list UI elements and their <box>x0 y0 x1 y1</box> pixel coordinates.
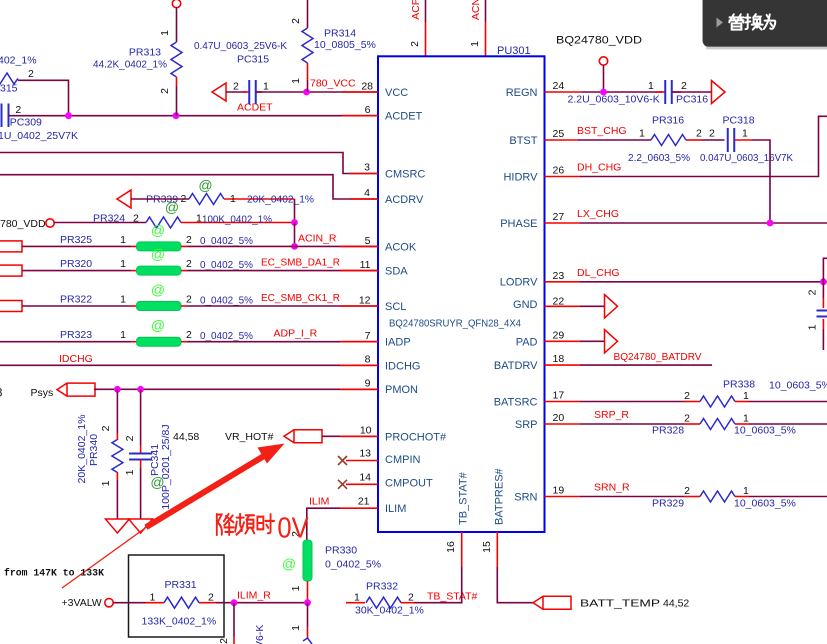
svg-text:PC315: PC315 <box>237 54 269 66</box>
svg-text:2.2_0603_5%: 2.2_0603_5% <box>628 152 690 164</box>
svg-text:44,58: 44,58 <box>173 431 199 443</box>
svg-text:9: 9 <box>365 378 371 390</box>
svg-text:1: 1 <box>159 30 171 36</box>
svg-text:1U_0402_25V7K: 1U_0402_25V7K <box>0 130 78 142</box>
wire IDCHG net <box>0 364 378 366</box>
wire PC318 to LX node <box>735 139 753 141</box>
svg-text:@: @ <box>150 474 164 490</box>
svg-text:21: 21 <box>358 496 370 508</box>
svg-text:PC318: PC318 <box>723 115 755 127</box>
pin 18 stub BATDRV <box>545 364 581 366</box>
svg-text:0_0402_5%: 0_0402_5% <box>200 259 253 271</box>
svg-text:@: @ <box>165 199 179 215</box>
svg-text:11: 11 <box>360 259 371 271</box>
svg-text:2: 2 <box>159 88 171 94</box>
svg-text:PR331: PR331 <box>165 579 197 591</box>
resistor PR329 10_0603_5% <box>580 496 684 498</box>
svg-text:1: 1 <box>807 324 819 330</box>
svg-text:ILIM: ILIM <box>385 503 406 515</box>
svg-text:29: 29 <box>553 329 565 341</box>
svg-text:1: 1 <box>120 258 126 270</box>
pin 22 stub GND with power arrow <box>545 305 581 307</box>
svg-text:30K_0402_1%: 30K_0402_1% <box>355 605 424 617</box>
resistor PR330 0_0402_5% (green jumper) <box>303 540 312 581</box>
resistor PR331 133K_0402_1% <box>113 602 146 604</box>
svg-text:0_0402_5%: 0_0402_5% <box>200 330 253 342</box>
svg-text:20: 20 <box>553 412 565 424</box>
svg-text:PR323: PR323 <box>60 329 92 341</box>
highlight box around PR331 <box>129 555 225 637</box>
svg-text:2: 2 <box>186 294 192 306</box>
wire LX_CHG to right edge <box>580 222 827 224</box>
tooltip popup 替换为 <box>703 0 827 49</box>
svg-text:1: 1 <box>743 390 749 402</box>
junction ACIN_R node <box>291 243 298 250</box>
pin 17 stub <box>545 401 581 403</box>
capacitor PC315 0.47U_0603_25V6-K <box>243 91 250 93</box>
pin 6 stub ACDET <box>342 115 378 117</box>
svg-text:2: 2 <box>186 258 192 270</box>
svg-text:14: 14 <box>359 472 371 484</box>
svg-text:PR325: PR325 <box>60 234 92 246</box>
wire PR322 to IC <box>187 305 378 307</box>
svg-text:4: 4 <box>364 187 370 199</box>
svg-text:1: 1 <box>100 480 112 486</box>
svg-text:BATDRV: BATDRV <box>494 360 538 372</box>
svg-text:23: 23 <box>553 270 565 282</box>
resistor PR314 10_0805_5% <box>307 0 309 28</box>
wire ACDET arrow to PC315 <box>226 91 246 93</box>
svg-text:20K_0402_1%: 20K_0402_1% <box>247 194 314 206</box>
svg-text:PR329: PR329 <box>652 498 684 510</box>
tooltip text 替换为 (drawn glyphs) <box>729 14 775 29</box>
wire PR325 to IC <box>187 245 378 247</box>
svg-text:+3VALW: +3VALW <box>62 597 102 609</box>
svg-text:1: 1 <box>639 128 645 140</box>
svg-text:ACOK: ACOK <box>385 241 417 253</box>
svg-text:13: 13 <box>359 448 371 460</box>
svg-text:2: 2 <box>133 213 139 225</box>
svg-text:10_0603_5%: 10_0603_5% <box>734 425 796 437</box>
svg-text:2: 2 <box>233 81 239 93</box>
svg-text:TB_STAT#: TB_STAT# <box>458 471 470 525</box>
svg-text:SDA: SDA <box>385 266 408 278</box>
wire ILIM from IC down to PR330 <box>340 507 378 509</box>
resistor PR328 10_0603_5% <box>580 423 684 425</box>
junction ILIM_R node <box>231 599 238 606</box>
resistor PR315 (partially cut at left edge) <box>0 73 18 84</box>
svg-text:2: 2 <box>290 18 302 24</box>
op-amp/charger IC PU301 BQ24780SRUYR_QFN28_4X4 body <box>378 56 545 532</box>
svg-text:IDCHG: IDCHG <box>59 353 93 365</box>
pin 27 stub PHASE <box>545 222 581 224</box>
svg-text:2: 2 <box>208 592 214 604</box>
svg-text:1: 1 <box>263 81 269 93</box>
wire PR329 to right edge <box>749 496 827 498</box>
wire BATDRV <box>580 364 712 366</box>
wire BATPRES# pin 15 to BATT_TEMP <box>496 532 498 567</box>
svg-text:ADP_I_R: ADP_I_R <box>274 328 318 340</box>
svg-text:780_VCC: 780_VCC <box>310 78 356 90</box>
svg-text:ILIM_R: ILIM_R <box>237 590 271 602</box>
port tag for PR320 <box>0 265 22 276</box>
svg-text:VCC: VCC <box>385 87 408 99</box>
wire down to ACIN_R <box>294 223 296 247</box>
svg-text:PR313: PR313 <box>129 47 161 59</box>
svg-text:@: @ <box>151 246 165 262</box>
svg-text:19: 19 <box>553 485 565 497</box>
capacitor at right edge (cut off) <box>822 282 824 298</box>
wire PC316 to power arrow <box>672 91 712 93</box>
junction node 780_VCC <box>303 89 310 96</box>
svg-text:VR_HOT#: VR_HOT# <box>225 431 274 443</box>
svg-text:PAD: PAD <box>516 336 538 348</box>
junction PC341 node <box>137 386 144 393</box>
svg-text:PR332: PR332 <box>366 581 398 593</box>
svg-text:PR328: PR328 <box>652 425 684 437</box>
svg-text:100K_0402_1%: 100K_0402_1% <box>202 214 272 226</box>
capacitor PC341 100P_0201_25/8J <box>140 389 142 445</box>
svg-text:PHASE: PHASE <box>500 218 537 230</box>
wire up from DL node to right edge <box>823 258 827 282</box>
svg-text:LX_CHG: LX_CHG <box>577 208 619 220</box>
svg-text:V6-K: V6-K <box>254 625 266 644</box>
svg-text:@: @ <box>282 556 296 572</box>
junction node at PC309/PR315 <box>65 112 72 119</box>
svg-text:2: 2 <box>408 592 414 604</box>
svg-text:EC_SMB_DA1_R: EC_SMB_DA1_R <box>261 257 340 269</box>
wire BQ24780_VDD down to REGN net <box>603 65 605 92</box>
svg-text:BQ24780SRUYR_QFN28_4X4: BQ24780SRUYR_QFN28_4X4 <box>389 319 521 330</box>
svg-text:EC_SMB_CK1_R: EC_SMB_CK1_R <box>261 292 340 304</box>
svg-text:@: @ <box>151 317 165 333</box>
svg-text:44.2K_0402_1%: 44.2K_0402_1% <box>93 59 167 71</box>
svg-text:402_1%: 402_1% <box>0 55 37 67</box>
svg-text:10_0805_5%: 10_0805_5% <box>314 39 376 51</box>
svg-text:GND: GND <box>513 299 538 311</box>
svg-text:SRN: SRN <box>514 492 537 504</box>
svg-text:DH_CHG: DH_CHG <box>577 162 621 174</box>
annotation text 降频时0V (drawn glyphs) <box>217 511 310 544</box>
svg-text:2: 2 <box>100 425 112 431</box>
svg-text:7: 7 <box>365 330 371 342</box>
svg-text:10: 10 <box>360 425 372 437</box>
wire PROCHOT# <box>322 435 378 437</box>
tooltip arrow icon <box>717 18 724 28</box>
svg-text:BST_CHG: BST_CHG <box>577 125 627 137</box>
svg-text:PMON: PMON <box>385 384 418 396</box>
svg-text:PR314: PR314 <box>324 28 356 40</box>
svg-text:1: 1 <box>230 193 236 205</box>
svg-text:PR340: PR340 <box>88 434 100 466</box>
power node circle BQ24780_VDD <box>599 57 607 65</box>
svg-text:PR322: PR322 <box>60 294 92 306</box>
resistor at bottom edge (cut off) <box>303 638 312 644</box>
svg-text:SRN_R: SRN_R <box>594 482 630 494</box>
capacitor PC309 (cut at left edge) <box>2 104 9 128</box>
svg-text:0_0402_5%: 0_0402_5% <box>200 235 253 247</box>
wire ACDRV net from left edge <box>0 175 378 199</box>
junction PR340 node <box>114 386 121 393</box>
port tag for PR322 <box>0 301 22 312</box>
svg-text:SCL: SCL <box>385 301 406 313</box>
junction node at PR313 bottom <box>173 112 180 119</box>
no-connect X on CMPIN pin 13 <box>338 456 347 465</box>
junction DL node at right edge <box>820 278 827 285</box>
svg-text:1: 1 <box>743 413 749 425</box>
junction REGN node <box>600 89 607 96</box>
svg-text:0_0402_5%: 0_0402_5% <box>200 295 253 307</box>
wire DL_CHG to right edge <box>580 281 827 283</box>
svg-text:1: 1 <box>469 41 481 47</box>
svg-text:2: 2 <box>409 41 421 47</box>
svg-text:BQ24780_VDD: BQ24780_VDD <box>556 35 642 47</box>
svg-text:BATPRES#: BATPRES# <box>494 467 506 525</box>
input arrow ACDET <box>212 83 226 101</box>
wire ACDET horizontal net y=116 <box>9 115 379 117</box>
svg-text:1: 1 <box>120 234 126 246</box>
svg-text:BTST: BTST <box>509 135 537 147</box>
annotation thick red arrow to VR_HOT# <box>146 456 264 527</box>
svg-text:28: 28 <box>361 81 373 93</box>
svg-text:44,52: 44,52 <box>663 598 689 610</box>
wire down from PR330 junction (cut off) <box>307 603 309 627</box>
wire for PR323 <box>0 341 131 343</box>
svg-text:8: 8 <box>365 354 371 366</box>
svg-text:@: @ <box>198 177 212 193</box>
wire from PR315 pin2 down to ACDET net <box>18 80 69 115</box>
wire DH_CHG to right edge <box>580 116 827 176</box>
svg-text:ACP: ACP <box>410 0 422 20</box>
svg-text:PR338: PR338 <box>723 379 755 391</box>
svg-text:315: 315 <box>0 83 18 95</box>
pin 26 stub HIDRV <box>545 176 581 178</box>
svg-text:PR316: PR316 <box>652 115 684 127</box>
svg-text:2: 2 <box>28 68 34 80</box>
svg-text:1: 1 <box>290 78 302 84</box>
svg-text:24: 24 <box>553 80 565 92</box>
pin 20 stub <box>545 423 581 425</box>
svg-text:PC309: PC309 <box>10 116 42 128</box>
svg-text:1: 1 <box>120 294 126 306</box>
svg-text:PROCHOT#: PROCHOT# <box>385 431 447 443</box>
svg-text:3: 3 <box>0 388 2 400</box>
svg-text:10_0603_5%: 10_0603_5% <box>769 380 827 392</box>
pin 19 stub <box>545 496 581 498</box>
svg-text:ACDET: ACDET <box>385 111 423 123</box>
svg-text:2: 2 <box>124 435 136 441</box>
svg-text:PU301: PU301 <box>497 45 531 57</box>
wire PR323 to IC <box>187 341 378 343</box>
resistor PR338 10_0603_5% <box>580 401 684 403</box>
wire ACN to pin 1 top <box>485 0 487 22</box>
svg-text:2: 2 <box>709 128 715 140</box>
svg-text:1: 1 <box>124 469 136 475</box>
wire TB_STAT# from pin 16 <box>414 567 462 603</box>
svg-text:100P_0201_25/8J: 100P_0201_25/8J <box>160 424 172 509</box>
wire CMSRC net from left edge <box>0 153 378 174</box>
resistor PR324 100K_0402_1% <box>54 222 146 224</box>
svg-text:15: 15 <box>481 541 493 553</box>
svg-text:2: 2 <box>684 413 690 425</box>
svg-text:IADP: IADP <box>385 337 411 349</box>
ground symbol under PC341 <box>129 519 153 533</box>
svg-text:2: 2 <box>684 485 690 497</box>
svg-text:22: 22 <box>553 295 565 307</box>
svg-text:0.047U_0603_16V7K: 0.047U_0603_16V7K <box>700 152 793 164</box>
capacitor PC318 0.047U_0603_16V7K <box>686 139 701 141</box>
svg-text:2: 2 <box>684 390 690 402</box>
svg-text:ACN: ACN <box>470 0 482 20</box>
svg-text:1: 1 <box>290 625 302 631</box>
svg-text:27: 27 <box>553 211 565 223</box>
wire ACP to pin 2 top <box>425 0 427 22</box>
wire PC315 to VCC pin <box>256 91 378 93</box>
svg-text:17: 17 <box>553 390 565 402</box>
svg-text:1: 1 <box>742 128 748 140</box>
svg-text:2: 2 <box>186 329 192 341</box>
svg-text:TB_STAT#: TB_STAT# <box>427 591 478 603</box>
svg-text:HIDRV: HIDRV <box>503 172 538 184</box>
svg-text:780_VDD: 780_VDD <box>0 218 46 230</box>
svg-text:2: 2 <box>186 234 192 246</box>
svg-text:@: @ <box>151 282 165 298</box>
pin 24 stub REGN <box>545 91 583 93</box>
svg-text:CMPIN: CMPIN <box>385 454 421 466</box>
svg-text:BQ24780_BATDRV: BQ24780_BATDRV <box>614 351 702 363</box>
svg-text:2: 2 <box>807 289 819 295</box>
svg-text:CMPOUT: CMPOUT <box>385 478 433 490</box>
svg-text:PR330: PR330 <box>325 545 357 557</box>
svg-text:PC316: PC316 <box>676 94 708 106</box>
svg-text:ACIN_R: ACIN_R <box>298 232 337 244</box>
svg-text:1: 1 <box>354 592 360 604</box>
svg-text:1: 1 <box>743 485 749 497</box>
wire PR320 to IC <box>187 270 378 272</box>
junction PR324/PR339 node <box>291 219 298 226</box>
wire PR339 pin1 down to PR324 <box>294 199 296 223</box>
junction LX node <box>767 220 774 227</box>
wire PR338 to right edge <box>749 401 827 403</box>
annotation thin red line <box>62 526 148 588</box>
svg-text:1: 1 <box>150 592 156 604</box>
wire PMON net <box>94 388 378 390</box>
junction PR330 bottom node <box>304 599 311 606</box>
pin 29 stub PAD with power arrow <box>545 340 581 342</box>
svg-text:2: 2 <box>218 638 230 644</box>
svg-text:DL_CHG: DL_CHG <box>577 267 620 279</box>
svg-text:1: 1 <box>290 585 302 591</box>
pin 25 stub BTST <box>545 139 579 141</box>
power arrow right REGN <box>712 81 726 104</box>
svg-text:18: 18 <box>553 353 565 365</box>
svg-text:2: 2 <box>15 104 21 116</box>
svg-text:CMSRC: CMSRC <box>385 169 425 181</box>
svg-text:12: 12 <box>359 295 371 307</box>
svg-text:Psys: Psys <box>31 387 54 399</box>
svg-text:from 147K to 133K: from 147K to 133K <box>4 568 104 579</box>
wire REGN to PC316 <box>582 91 662 93</box>
input arrow for PR339 <box>117 190 131 208</box>
svg-text:PR324: PR324 <box>93 213 125 225</box>
no-connect X on CMPOUT pin 14 <box>338 480 347 489</box>
svg-text:6: 6 <box>365 104 371 116</box>
svg-text:3: 3 <box>364 162 370 174</box>
svg-text:SRP_R: SRP_R <box>594 409 629 421</box>
svg-text:2.2U_0603_10V6-K: 2.2U_0603_10V6-K <box>568 94 660 106</box>
pin 28 stub VCC <box>342 91 378 93</box>
svg-text:10_0603_5%: 10_0603_5% <box>734 498 796 510</box>
resistor PR313 44.2K_0402_1% <box>172 0 180 8</box>
svg-text:16: 16 <box>445 541 457 553</box>
wire PR331 to ILIM_R <box>216 602 308 604</box>
svg-text:25: 25 <box>553 128 565 140</box>
svg-text:5: 5 <box>365 235 371 247</box>
svg-text:ILIM: ILIM <box>309 496 329 508</box>
svg-text:PR320: PR320 <box>60 258 92 270</box>
svg-text:133K_0402_1%: 133K_0402_1% <box>142 616 217 628</box>
svg-text:0.47U_0603_25V6-K: 0.47U_0603_25V6-K <box>194 40 287 52</box>
net flag BATT_TEMP <box>533 596 571 609</box>
svg-text:2: 2 <box>681 80 687 92</box>
svg-text:2: 2 <box>696 128 702 140</box>
wire down from ILIM_R junction (to cap below, cut off) <box>233 603 235 637</box>
svg-text:LODRV: LODRV <box>500 277 538 289</box>
svg-text:@: @ <box>151 222 165 238</box>
ground symbol under PR340 <box>105 519 129 533</box>
pin 23 stub LODRV <box>545 281 581 283</box>
svg-text:1: 1 <box>120 329 126 341</box>
svg-text:IDCHG: IDCHG <box>385 360 420 372</box>
wire PR328 to right edge <box>749 423 827 425</box>
svg-text:26: 26 <box>553 165 565 177</box>
resistor PR340 20K_0402_1% <box>116 389 118 433</box>
port tag for PR325 <box>0 241 22 252</box>
svg-text:ACDRV: ACDRV <box>385 194 424 206</box>
svg-text:SRP: SRP <box>515 419 538 431</box>
wire BTST to PR316 <box>578 139 651 141</box>
svg-text:1: 1 <box>648 80 654 92</box>
svg-text:REGN: REGN <box>506 87 538 99</box>
svg-text:0_0402_5%: 0_0402_5% <box>325 559 381 571</box>
capacitor PC316 2.2U_0603_10V6-K <box>656 91 665 93</box>
svg-text:0V: 0V <box>277 511 309 544</box>
svg-text:BATT_TEMP: BATT_TEMP <box>580 598 660 610</box>
net flag VR_HOT# <box>284 430 322 443</box>
svg-text:20K_0402_1%: 20K_0402_1% <box>76 415 88 484</box>
svg-text:BATSRC: BATSRC <box>494 397 538 409</box>
